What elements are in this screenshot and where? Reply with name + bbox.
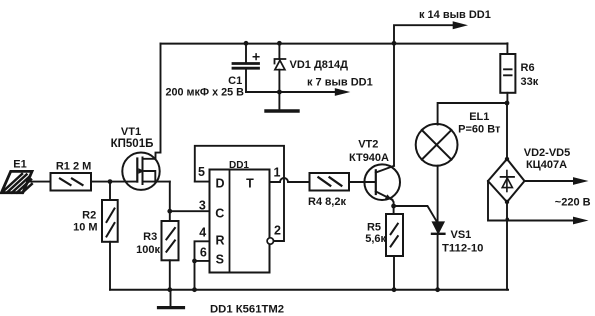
svg-text:10 М: 10 М: [73, 222, 97, 234]
capacitor C1: [233, 43, 259, 92]
svg-text:3: 3: [199, 198, 206, 212]
svg-text:S: S: [216, 253, 224, 267]
ground (below VD1): [266, 109, 298, 112]
wire bridge bottom to rail: [506, 202, 508, 290]
node VD1 top junction: [277, 41, 282, 46]
svg-text:Т112-10: Т112-10: [442, 242, 483, 254]
wire DD1 pin 6 (S input): [195, 260, 210, 262]
node VT2 collector junction: [392, 41, 397, 46]
transistor VT1: [122, 153, 170, 190]
svg-text:VT1: VT1: [121, 126, 141, 138]
wire mains output 2 (arrow): [488, 181, 589, 224]
svg-text:100к: 100к: [136, 244, 160, 256]
svg-text:5: 5: [198, 165, 205, 179]
wire bridge top: [506, 103, 508, 159]
svg-text:33к: 33к: [521, 76, 539, 88]
wire DD1 pin 5 (D input): [195, 181, 210, 183]
bridge rectifier VD2-VD5: [488, 159, 525, 202]
wire mains output 1 (arrow): [525, 177, 589, 185]
wire VT1 drain: [143, 44, 161, 159]
wire pins 4,6 to rail: [194, 261, 196, 290]
node crossing artifact: [506, 218, 510, 222]
wire EL1 to VS1: [437, 166, 439, 222]
node R6/EL1/bridge junction: [505, 101, 510, 106]
resistor R1: [51, 173, 92, 191]
svg-text:6: 6: [200, 246, 207, 260]
svg-text:1: 1: [274, 165, 281, 179]
wire bottom rail: [110, 289, 508, 291]
node bridge bottom vertex: [505, 200, 509, 204]
svg-text:~220 В: ~220 В: [555, 196, 591, 208]
svg-text:200 мкФ х 25 В: 200 мкФ х 25 В: [165, 87, 244, 99]
svg-text:КП501Б: КП501Б: [111, 138, 154, 150]
svg-text:R1 2 M: R1 2 M: [56, 161, 91, 173]
node C1/VD1 junction: [277, 90, 282, 95]
svg-text:T: T: [246, 176, 254, 190]
svg-text:2: 2: [274, 224, 281, 238]
node source/R3/pin3 junction: [167, 209, 172, 214]
wire to pin 14 of DD1 (arrow): [394, 21, 468, 43]
node emitter/R5/gate junction: [391, 204, 396, 209]
svg-text:EL1: EL1: [469, 111, 489, 123]
svg-text:R4 8,2к: R4 8,2к: [308, 196, 346, 208]
svg-text:VD2-VD5: VD2-VD5: [524, 147, 570, 159]
svg-text:DD1: DD1: [229, 160, 249, 171]
wire VT2 emitter down: [392, 200, 393, 206]
wire DD1 pin 1 (Q output) to R4 with hop: [270, 178, 310, 182]
svg-text:Р=60 Вт: Р=60 Вт: [458, 124, 501, 136]
ground (main): [159, 290, 184, 308]
svg-text:4: 4: [199, 226, 206, 240]
wire VS1 gate: [394, 206, 437, 222]
lamp EL1: [416, 124, 458, 166]
node VS1 on rail: [435, 287, 440, 292]
svg-text:VD1 Д814Д: VD1 Д814Д: [290, 59, 349, 71]
wire top rail: [161, 43, 508, 45]
wire to DD1 pin 3: [170, 210, 210, 212]
svg-text:VS1: VS1: [451, 229, 472, 241]
flip-flop DD1: [210, 170, 274, 273]
svg-text:C: C: [215, 206, 224, 220]
thyristor VS1: [432, 222, 444, 289]
wire feedback pin 2 to pin 5: [195, 146, 284, 241]
svg-text:5,6к: 5,6к: [365, 233, 386, 245]
svg-text:D: D: [215, 176, 224, 190]
resistor R6: [500, 43, 515, 103]
resistor R4: [310, 173, 350, 191]
wire VT2 collector up: [393, 43, 395, 166]
node on rail: [192, 287, 197, 292]
electrode E1: [1, 171, 50, 192]
svg-text:к 7 выв DD1: к 7 выв DD1: [307, 76, 373, 88]
wire to pin 7 of DD1 (arrow): [246, 88, 350, 96]
zener diode VD1: [275, 43, 286, 108]
wire R1 to VT1 gate: [91, 181, 137, 183]
svg-text:E1: E1: [13, 159, 26, 171]
svg-text:R: R: [215, 234, 224, 248]
wire VT1 source down: [169, 182, 171, 212]
svg-text:R6: R6: [521, 62, 535, 74]
svg-text:VT2: VT2: [358, 139, 378, 151]
node gate/R2 junction: [108, 179, 113, 184]
svg-text:к 14 выв DD1: к 14 выв DD1: [419, 9, 491, 21]
node R5 on rail: [392, 287, 397, 292]
node C1 top junction: [244, 41, 249, 46]
resistor R3: [162, 211, 179, 290]
svg-text:DD1 К561ТМ2: DD1 К561ТМ2: [210, 304, 284, 316]
wire DD1 pin 4 (R input): [195, 241, 210, 261]
transistor VT2: [364, 164, 400, 200]
svg-text:R2: R2: [82, 210, 96, 222]
resistor R2: [102, 182, 118, 290]
node pin4/pin6 junction: [192, 259, 197, 264]
svg-text:R5: R5: [367, 221, 381, 233]
resistor R5: [386, 206, 403, 290]
svg-text:КЦ407А: КЦ407А: [526, 159, 567, 171]
wire to lamp EL1: [438, 103, 507, 125]
svg-text:КТ940А: КТ940А: [349, 152, 389, 164]
node bridge top vertex: [505, 157, 509, 161]
wire R4 to VT2 base: [349, 181, 375, 183]
svg-text:R3: R3: [143, 231, 157, 243]
pin 2 inversion bubble: [267, 238, 273, 244]
svg-text:C1: C1: [228, 75, 242, 87]
node R3/ground on rail: [167, 287, 172, 292]
